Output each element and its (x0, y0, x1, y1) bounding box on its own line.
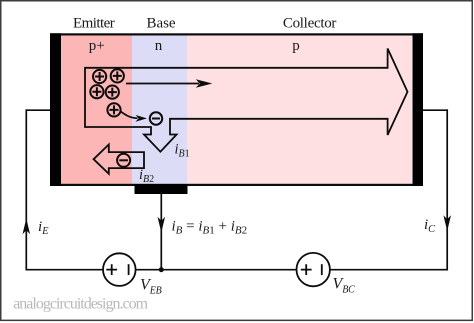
wire: bottom rail right segment (330, 269, 448, 271)
current arrow iC (443, 215, 451, 231)
electron injection block arrow iB2 (94, 145, 144, 174)
svg-text:p: p (292, 38, 300, 54)
svg-text:Emitter: Emitter (73, 15, 115, 31)
wire: bottom rail middle segment (136, 269, 297, 271)
svg-text:analogcircuitdesign.com: analogcircuitdesign.com (13, 296, 148, 313)
wire: base contact down to bottom rail (160, 194, 162, 270)
current arrow iB (158, 217, 166, 233)
node: base junction dot (159, 267, 164, 272)
electron symbol E2 (injected into emitter) (117, 154, 130, 167)
base contact (metal bar) (135, 184, 188, 194)
collector contact (metal bar) (413, 33, 424, 186)
voltage source VBC (297, 253, 330, 286)
hole symbol H4 (106, 86, 119, 99)
wire: bottom rail left segment (26, 269, 104, 271)
collector region p (187, 35, 412, 185)
svg-text:n: n (155, 38, 163, 54)
wire: left rail vertical (25, 109, 27, 270)
body bottom border (50, 184, 423, 186)
hole symbol H3 (90, 85, 103, 98)
svg-text:Base: Base (147, 15, 176, 31)
wire: collector contact to right rail (423, 109, 448, 111)
emitter region p+ (61, 35, 132, 185)
svg-text:p+: p+ (89, 38, 105, 54)
hole symbol H2 (111, 69, 124, 82)
hole symbol H5 (107, 103, 120, 116)
current arrow iE (23, 219, 31, 235)
voltage source VEB (103, 253, 136, 286)
emitter contact (metal bar) (50, 33, 61, 186)
base region n (132, 35, 187, 185)
electron symbol E1 (recombination in base) (150, 112, 162, 124)
svg-text:Collector: Collector (283, 15, 337, 31)
wire: right rail vertical (446, 109, 448, 270)
hole symbol H1 (93, 70, 106, 83)
hole current block arrow (emitter box, collector arrow, iB1 branch) (85, 49, 408, 152)
recombination curved arrow (121, 111, 148, 122)
wire: emitter contact to left rail (26, 109, 51, 111)
body top border (50, 33, 423, 35)
hole drift thin arrow (126, 79, 212, 88)
